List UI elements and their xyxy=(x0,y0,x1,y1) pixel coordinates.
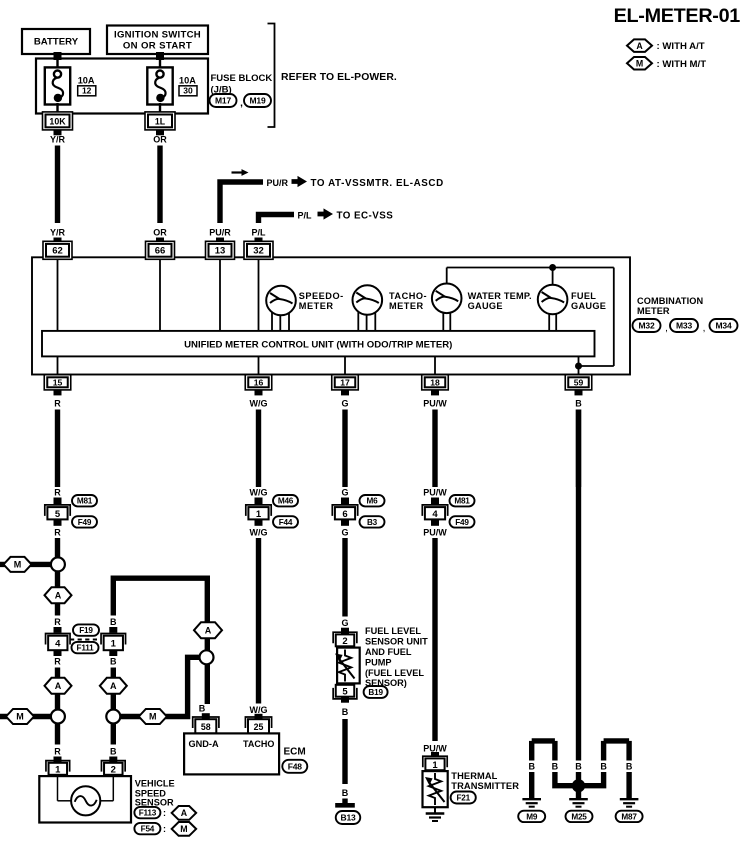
svg-text:EL-METER-01: EL-METER-01 xyxy=(614,5,741,27)
svg-text:REFER TO EL-POWER.: REFER TO EL-POWER. xyxy=(281,72,397,83)
svg-text:4: 4 xyxy=(55,638,61,649)
svg-text:PU/R: PU/R xyxy=(267,178,289,188)
svg-text:OR: OR xyxy=(153,135,167,145)
svg-text:GAUGE: GAUGE xyxy=(468,301,503,311)
svg-text::: : xyxy=(163,824,166,834)
svg-text:12: 12 xyxy=(82,86,92,96)
svg-text:METER: METER xyxy=(637,306,670,316)
svg-text:M: M xyxy=(149,712,157,722)
svg-text:TRANSMITTER: TRANSMITTER xyxy=(451,781,519,791)
svg-text:13: 13 xyxy=(215,246,226,257)
svg-text:WATER TEMP.: WATER TEMP. xyxy=(468,291,532,301)
svg-text:F111: F111 xyxy=(77,644,95,653)
svg-text:R: R xyxy=(54,527,61,537)
svg-text:ECM: ECM xyxy=(284,747,306,758)
svg-text:2: 2 xyxy=(342,636,347,647)
svg-text:10K: 10K xyxy=(49,116,66,126)
svg-text:: WITH M/T: : WITH M/T xyxy=(657,59,707,70)
svg-text:TACHO: TACHO xyxy=(243,739,274,749)
svg-text:F113: F113 xyxy=(139,809,157,818)
svg-text:F49: F49 xyxy=(455,518,469,527)
svg-text:A: A xyxy=(205,625,212,635)
svg-text:SPEEDO-: SPEEDO- xyxy=(299,291,344,301)
svg-text:M: M xyxy=(14,560,22,570)
svg-text:,: , xyxy=(240,98,243,109)
svg-text:R: R xyxy=(54,399,61,409)
svg-text:15: 15 xyxy=(53,378,63,388)
svg-text:A: A xyxy=(636,41,643,51)
svg-text:A: A xyxy=(181,808,188,818)
svg-text:P/L: P/L xyxy=(298,211,313,221)
svg-text:5: 5 xyxy=(342,686,348,697)
svg-text::: : xyxy=(163,808,166,818)
svg-text:PU/R: PU/R xyxy=(209,228,231,238)
svg-text:VEHICLE: VEHICLE xyxy=(135,779,175,789)
svg-text:W/G: W/G xyxy=(250,488,268,498)
svg-text:58: 58 xyxy=(201,722,211,732)
svg-text:18: 18 xyxy=(430,378,440,388)
svg-text:1: 1 xyxy=(55,764,61,775)
svg-text:59: 59 xyxy=(574,378,584,388)
svg-text:TO EC-VSS: TO EC-VSS xyxy=(337,211,394,222)
svg-text:F21: F21 xyxy=(456,794,470,803)
svg-text:A: A xyxy=(110,681,117,691)
svg-text:TACHO-: TACHO- xyxy=(389,291,427,301)
svg-text:1: 1 xyxy=(111,638,117,649)
svg-text:Y/R: Y/R xyxy=(50,228,66,238)
svg-text:10A: 10A xyxy=(179,76,196,86)
svg-text:B: B xyxy=(600,761,607,771)
svg-text:G: G xyxy=(341,488,348,498)
svg-text:THERMAL: THERMAL xyxy=(451,771,497,781)
svg-text:B: B xyxy=(110,617,117,627)
svg-text:FUSE BLOCK: FUSE BLOCK xyxy=(211,73,273,84)
svg-text:G: G xyxy=(341,527,348,537)
svg-text:,: , xyxy=(665,323,668,334)
svg-text:B3: B3 xyxy=(367,518,378,527)
svg-text:PUMP: PUMP xyxy=(365,657,392,667)
svg-text:B: B xyxy=(342,707,349,717)
svg-text:GAUGE: GAUGE xyxy=(571,301,606,311)
svg-text:1L: 1L xyxy=(155,116,166,126)
svg-text:B: B xyxy=(110,657,117,667)
svg-text:FUEL LEVEL: FUEL LEVEL xyxy=(365,626,421,636)
svg-text:IGNITION SWITCH: IGNITION SWITCH xyxy=(114,30,201,41)
svg-text:BATTERY: BATTERY xyxy=(34,37,79,48)
svg-text:PU/W: PU/W xyxy=(423,488,447,498)
svg-text:62: 62 xyxy=(52,246,63,257)
svg-text:B19: B19 xyxy=(368,688,383,697)
svg-text:W/G: W/G xyxy=(250,705,268,715)
svg-text:M17: M17 xyxy=(215,96,231,106)
svg-text:: WITH A/T: : WITH A/T xyxy=(657,41,705,52)
svg-text:1: 1 xyxy=(256,509,262,520)
svg-text:FUEL: FUEL xyxy=(571,291,596,301)
svg-text:B: B xyxy=(575,399,582,409)
svg-text:G: G xyxy=(341,618,348,628)
svg-text:M81: M81 xyxy=(454,497,470,506)
svg-text:6: 6 xyxy=(342,509,347,520)
svg-text:M: M xyxy=(180,824,187,834)
svg-text:2: 2 xyxy=(111,764,116,775)
svg-text:B: B xyxy=(110,747,117,757)
svg-text:M33: M33 xyxy=(676,321,692,331)
svg-text:R: R xyxy=(54,747,61,757)
svg-text:R: R xyxy=(54,488,61,498)
svg-text:M32: M32 xyxy=(639,321,655,331)
svg-text:32: 32 xyxy=(253,246,264,257)
svg-text:PU/W: PU/W xyxy=(423,527,447,537)
svg-text:F44: F44 xyxy=(279,518,293,527)
svg-text:16: 16 xyxy=(254,378,264,388)
svg-text:17: 17 xyxy=(340,378,350,388)
svg-text:G: G xyxy=(341,399,348,409)
svg-text:GND-A: GND-A xyxy=(189,739,219,749)
svg-text:COMBINATION: COMBINATION xyxy=(637,296,704,306)
svg-text:B: B xyxy=(342,788,349,798)
svg-text:ON OR START: ON OR START xyxy=(123,41,192,52)
svg-text:P/L: P/L xyxy=(251,228,266,238)
svg-text:30: 30 xyxy=(183,86,193,96)
svg-text:METER: METER xyxy=(389,301,424,311)
svg-text:TO AT-VSSMTR. EL-ASCD: TO AT-VSSMTR. EL-ASCD xyxy=(311,178,444,189)
svg-text:PU/W: PU/W xyxy=(423,399,447,409)
svg-text:B: B xyxy=(199,703,206,713)
svg-text:M87: M87 xyxy=(621,812,637,821)
svg-text:SENSOR UNIT: SENSOR UNIT xyxy=(365,637,428,647)
svg-text:66: 66 xyxy=(155,246,166,257)
svg-text:A: A xyxy=(55,590,62,600)
svg-text:1: 1 xyxy=(432,760,438,771)
svg-text:B: B xyxy=(552,761,559,771)
svg-text:R: R xyxy=(54,657,61,667)
svg-text:B13: B13 xyxy=(341,813,356,823)
svg-text:Y/R: Y/R xyxy=(50,135,66,145)
svg-text:M: M xyxy=(16,712,24,722)
svg-text:B: B xyxy=(626,761,633,771)
svg-text:F54: F54 xyxy=(141,825,155,834)
svg-text:AND FUEL: AND FUEL xyxy=(365,647,412,657)
svg-text:M6: M6 xyxy=(367,497,379,506)
svg-text:SENSOR): SENSOR) xyxy=(365,678,407,688)
svg-text:(FUEL LEVEL: (FUEL LEVEL xyxy=(365,668,424,678)
svg-text:B: B xyxy=(575,761,582,771)
svg-text:M9: M9 xyxy=(526,812,538,821)
svg-text:M34: M34 xyxy=(716,321,732,331)
svg-text:OR: OR xyxy=(153,228,167,238)
svg-text:METER: METER xyxy=(299,301,334,311)
svg-text:M: M xyxy=(636,58,643,68)
svg-text:10A: 10A xyxy=(78,76,95,86)
svg-text:B: B xyxy=(528,761,535,771)
svg-text:M19: M19 xyxy=(250,96,266,106)
svg-text:,: , xyxy=(703,323,706,334)
svg-text:A: A xyxy=(55,681,62,691)
svg-text:W/G: W/G xyxy=(250,399,268,409)
svg-text:M81: M81 xyxy=(77,497,93,506)
svg-text:F19: F19 xyxy=(79,626,93,635)
svg-text:F49: F49 xyxy=(78,518,92,527)
svg-text:W/G: W/G xyxy=(250,527,268,537)
svg-text:M46: M46 xyxy=(278,497,294,506)
svg-text:25: 25 xyxy=(254,722,264,732)
svg-text:UNIFIED METER CONTROL UNIT (WI: UNIFIED METER CONTROL UNIT (WITH ODO/TRI… xyxy=(184,339,452,350)
svg-text:R: R xyxy=(54,617,61,627)
svg-text:F48: F48 xyxy=(288,761,303,771)
svg-text:M25: M25 xyxy=(571,812,587,821)
svg-text:5: 5 xyxy=(55,509,61,520)
svg-text:4: 4 xyxy=(432,509,438,520)
